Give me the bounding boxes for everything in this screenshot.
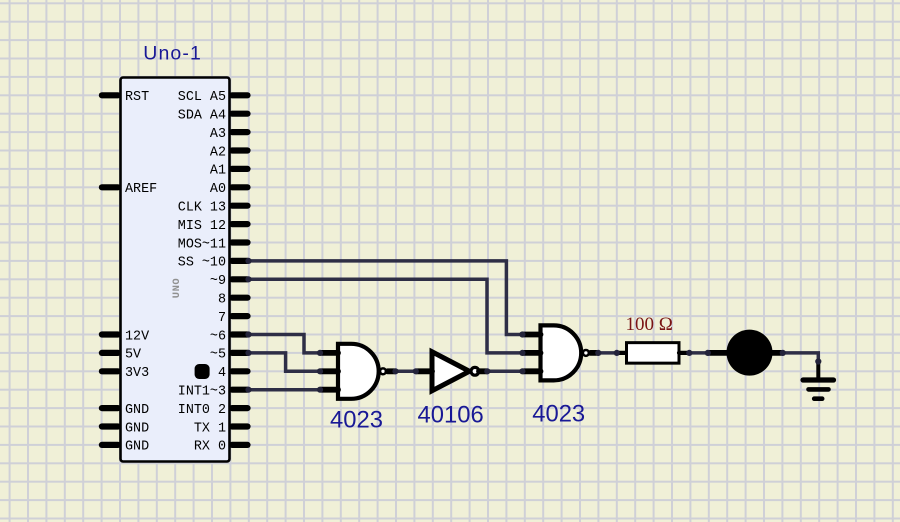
svg-text:MOS~11: MOS~11	[178, 237, 226, 252]
Uno pin AREF (left, stub)	[102, 184, 118, 190]
svg-text:TX 1: TX 1	[194, 421, 226, 436]
wire: speaker to ground	[783, 353, 818, 362]
svg-text:MIS 12: MIS 12	[178, 219, 226, 234]
Uno pin ~9 (right, stub)	[232, 276, 248, 282]
NAND2 output pin	[590, 350, 598, 356]
svg-text:A3: A3	[210, 127, 226, 142]
svg-text:~5: ~5	[210, 348, 226, 363]
Uno pin GND (left, stub)	[102, 405, 118, 411]
junction: inverter input node	[413, 368, 419, 374]
svg-text:RST: RST	[125, 90, 149, 105]
Uno pin MOS~11 (right, stub)	[232, 239, 248, 245]
speaker/buzzer body (black circle)	[727, 330, 773, 376]
wire: Uno ~6 to NAND1 input A	[249, 335, 321, 353]
ground bar 2	[809, 387, 829, 392]
svg-text:5V: 5V	[125, 348, 141, 363]
svg-text:INT1~3: INT1~3	[178, 385, 226, 400]
junction: NAND2 input C node	[519, 368, 525, 374]
svg-text:7: 7	[218, 311, 226, 326]
Uno pin TX 1 (right, stub)	[232, 423, 248, 429]
junction: NAND2 output node	[595, 350, 601, 356]
NAND1 input pin 2	[321, 368, 338, 374]
junction: Uno ~6 pin end	[245, 331, 251, 337]
NAND2 input pin 2	[524, 350, 541, 356]
junction: NAND1 input A node	[317, 350, 323, 356]
Uno pin GND (left, stub)	[102, 442, 118, 448]
svg-text:Uno-1: Uno-1	[143, 43, 202, 65]
wire: NAND1 output to inverter input	[396, 370, 416, 374]
ground bar 1	[803, 377, 834, 382]
Uno pin INT0 2 (right, stub)	[232, 405, 248, 411]
Uno pin GND (left, stub)	[102, 423, 118, 429]
svg-text:SS ~10: SS ~10	[178, 256, 226, 271]
Uno pin RST (left, stub)	[102, 92, 118, 98]
ground bar 3	[814, 396, 822, 401]
svg-text:~6: ~6	[210, 329, 226, 344]
Uno pin INT1~3 (right, stub)	[232, 387, 248, 393]
svg-text:~9: ~9	[210, 274, 226, 289]
svg-text:RX 0: RX 0	[194, 440, 226, 455]
wire: inverter output to NAND2 input C	[488, 370, 523, 374]
svg-text:4: 4	[218, 366, 226, 381]
Uno pin ~5 (right, stub)	[232, 350, 248, 356]
black square marker next to pin 4	[195, 364, 210, 379]
junction: NAND1 input B node	[317, 368, 323, 374]
Uno pin A3 (right, stub)	[232, 129, 248, 135]
svg-text:4023: 4023	[330, 407, 383, 434]
NAND1 input pin 1	[321, 350, 338, 356]
svg-text:A2: A2	[210, 145, 226, 160]
NAND gate U2 4023 (3-input, body)	[338, 344, 379, 399]
wire: Uno INT1~3 to NAND1 input C	[249, 388, 321, 392]
wire: Uno ~9 to NAND2 input B	[249, 279, 523, 353]
inverter input pin	[417, 368, 433, 374]
svg-text:GND: GND	[125, 440, 149, 455]
NAND gate U4 4023 (3-input, body)	[541, 325, 582, 380]
svg-text:CLK 13: CLK 13	[178, 201, 226, 216]
inverter output bubble	[471, 367, 479, 375]
Uno pin A2 (right, stub)	[232, 147, 248, 153]
svg-text:UNO: UNO	[171, 278, 183, 298]
NAND2 input pin 1	[524, 332, 541, 338]
Uno pin A1 (right, stub)	[232, 166, 248, 172]
junction: Uno SS~10 pin end	[245, 258, 251, 264]
Uno pin ~6 (right, stub)	[232, 331, 248, 337]
junction: ground pin top node	[815, 358, 821, 364]
speaker/buzzer left pin	[708, 350, 727, 356]
junction: resistor right node	[686, 350, 692, 356]
junction: NAND1 output node	[392, 368, 398, 374]
resistor R1 right pin	[679, 351, 689, 355]
Uno pin A0 (right, stub)	[232, 184, 248, 190]
wire: resistor R1 to speaker	[690, 351, 708, 355]
Uno pin CLK 13 (right, stub)	[232, 203, 248, 209]
junction: Uno ~9 pin end	[245, 276, 251, 282]
svg-text:AREF: AREF	[125, 182, 157, 197]
junction: speaker right node	[780, 350, 786, 356]
Uno pin SS ~10 (right, stub)	[232, 258, 248, 264]
junction: Uno ~5 pin end	[245, 350, 251, 356]
junction: Uno INT1~3 pin end	[245, 387, 251, 393]
Uno pin 4 (right, stub)	[232, 368, 248, 374]
Uno pin SCL A5 (right, stub)	[232, 92, 248, 98]
arduino uno board Uno-1 (component body)	[121, 78, 230, 462]
Uno pin 12V (left, stub)	[102, 331, 118, 337]
NAND2 input pin 3	[524, 368, 541, 374]
svg-text:100 Ω: 100 Ω	[626, 314, 673, 335]
junction: inverter output node	[484, 368, 490, 374]
Uno pin 8 (right, stub)	[232, 295, 248, 301]
svg-text:A0: A0	[210, 182, 226, 197]
junction: speaker left node	[705, 350, 711, 356]
svg-text:3V3: 3V3	[125, 366, 149, 381]
svg-text:GND: GND	[125, 421, 149, 436]
junction: NAND1 input C node	[317, 387, 323, 393]
junction: NAND2 input A node	[519, 331, 525, 337]
resistor R1 left pin	[617, 351, 627, 355]
NAND1 output pin	[388, 368, 396, 374]
junction: resistor left node	[614, 350, 620, 356]
svg-text:12V: 12V	[125, 329, 149, 344]
wire: NAND2 output to resistor R1	[599, 351, 617, 355]
speaker/buzzer right pin	[772, 350, 783, 356]
svg-text:SDA A4: SDA A4	[178, 109, 226, 124]
ground symbol: vertical pin	[816, 362, 820, 378]
NAND1 output bubble	[380, 368, 386, 374]
svg-text:40106: 40106	[418, 401, 484, 428]
svg-text:8: 8	[218, 293, 226, 308]
inverter output pin	[479, 368, 487, 374]
svg-text:4023: 4023	[532, 400, 585, 427]
svg-text:INT0 2: INT0 2	[178, 403, 226, 418]
Uno pin 7 (right, stub)	[232, 313, 248, 319]
NAND1 input pin 3	[321, 387, 338, 393]
NAND2 output bubble	[583, 350, 589, 356]
Uno pin MIS 12 (right, stub)	[232, 221, 248, 227]
svg-text:SCL A5: SCL A5	[178, 90, 226, 105]
junction: NAND2 input B node	[519, 350, 525, 356]
Uno pin 5V (left, stub)	[102, 350, 118, 356]
svg-text:A1: A1	[210, 164, 226, 179]
Uno pin SDA A4 (right, stub)	[232, 111, 248, 117]
svg-text:GND: GND	[125, 403, 149, 418]
wire: Uno SS~10 to NAND2 input A	[249, 261, 523, 335]
Uno pin 3V3 (left, stub)	[102, 368, 118, 374]
schmitt inverter U3 40106 (body)	[432, 352, 469, 391]
Uno pin RX 0 (right, stub)	[232, 442, 248, 448]
resistor R1 body	[627, 343, 680, 364]
wire: Uno ~5 to NAND1 input B	[249, 353, 321, 371]
